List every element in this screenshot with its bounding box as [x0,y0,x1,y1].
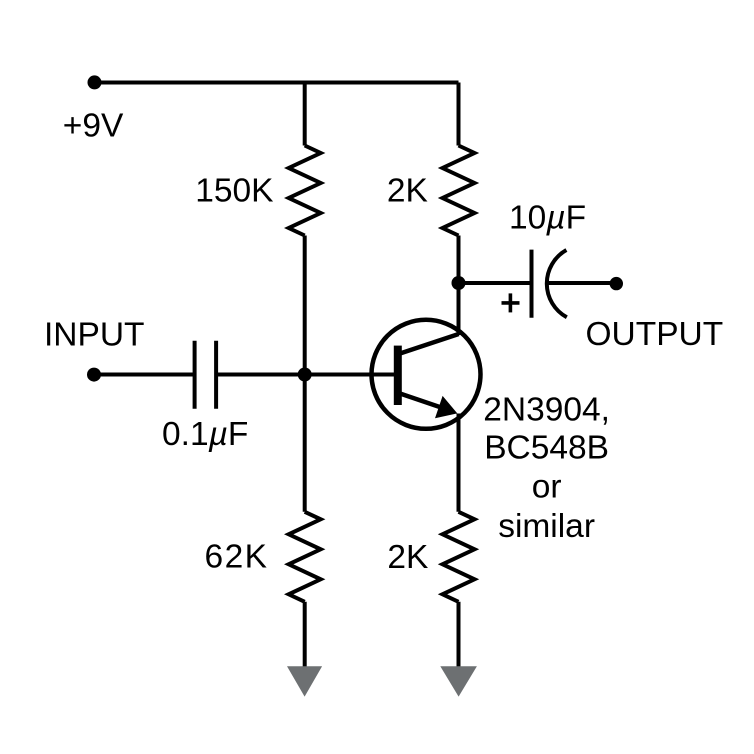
svg-text:+9V: +9V [63,108,124,145]
svg-text:OUTPUT: OUTPUT [586,316,724,353]
svg-text:62K: 62K [205,539,268,576]
svg-text:2K: 2K [387,539,428,576]
svg-text:similar: similar [498,508,595,545]
svg-text:or: or [532,469,562,506]
svg-text:150K: 150K [195,172,273,209]
svg-text:INPUT: INPUT [44,317,145,354]
svg-text:10µF: 10µF [509,200,586,237]
svg-text:2N3904,: 2N3904, [483,392,610,429]
svg-text:BC548B: BC548B [484,430,609,467]
svg-text:2K: 2K [387,172,428,209]
svg-text:0.1µF: 0.1µF [162,416,248,453]
